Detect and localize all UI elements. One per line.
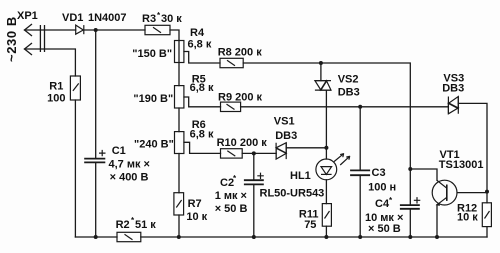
- svg-text:R2: R2: [116, 219, 130, 231]
- svg-text:10 к: 10 к: [186, 211, 207, 223]
- svg-text:C2: C2: [220, 177, 234, 189]
- svg-text:DB3: DB3: [338, 87, 360, 99]
- svg-text:C1: C1: [112, 145, 126, 157]
- svg-text:× 400 В: × 400 В: [110, 172, 149, 184]
- svg-text:~230 В: ~230 В: [4, 16, 19, 62]
- svg-text:"150 В": "150 В": [132, 48, 172, 60]
- svg-text:RL50-UR543: RL50-UR543: [260, 187, 325, 199]
- svg-text:HL1: HL1: [290, 170, 311, 182]
- svg-text:× 50 В: × 50 В: [215, 203, 248, 215]
- svg-text:R10 200 к: R10 200 к: [217, 137, 268, 149]
- svg-text:R1: R1: [49, 80, 63, 92]
- svg-text:R8 200 к: R8 200 к: [218, 47, 263, 59]
- svg-text:1N4007: 1N4007: [88, 12, 127, 24]
- svg-text:1 мк ×: 1 мк ×: [215, 190, 247, 202]
- svg-text:"190 В": "190 В": [133, 93, 173, 105]
- svg-text:DB3: DB3: [275, 130, 297, 142]
- svg-text:6,8 к: 6,8 к: [188, 38, 212, 50]
- svg-text:6,8 к: 6,8 к: [190, 82, 214, 94]
- svg-text:"240 В": "240 В": [134, 139, 174, 151]
- svg-text:75: 75: [304, 219, 316, 231]
- svg-text:R9 200 к: R9 200 к: [218, 92, 263, 104]
- svg-text:VS1: VS1: [274, 116, 295, 128]
- svg-text:R3: R3: [142, 13, 156, 25]
- svg-text:R7: R7: [188, 198, 202, 210]
- svg-text:51 к: 51 к: [135, 219, 156, 231]
- svg-text:× 50 В: × 50 В: [368, 223, 401, 235]
- svg-text:30 к: 30 к: [161, 13, 182, 25]
- svg-text:C4: C4: [375, 198, 390, 210]
- svg-text:10 к: 10 к: [457, 212, 478, 224]
- svg-text:XP1: XP1: [17, 10, 38, 22]
- svg-text:DB3: DB3: [442, 83, 464, 95]
- svg-text:R4: R4: [190, 27, 205, 39]
- svg-text:4,7 мк ×: 4,7 мк ×: [109, 159, 150, 171]
- svg-text:TS13001: TS13001: [439, 159, 484, 171]
- svg-text:100: 100: [47, 93, 65, 105]
- svg-text:6,8 к: 6,8 к: [190, 128, 214, 140]
- svg-text:100 н: 100 н: [368, 181, 396, 193]
- svg-text:VD1: VD1: [62, 12, 83, 24]
- svg-text:VS2: VS2: [338, 74, 359, 86]
- svg-text:C3: C3: [372, 167, 386, 179]
